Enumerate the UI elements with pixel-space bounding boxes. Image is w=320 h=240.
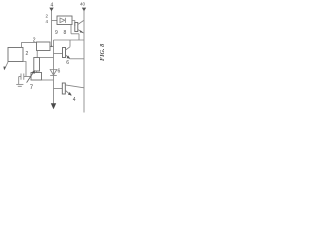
junction dot node A [51, 46, 53, 48]
transistor Q2 collector wire [69, 40, 71, 47]
node A junction wire to diode box [52, 20, 58, 22]
transistor Q1 collector diagonal [78, 21, 84, 25]
terminal T1 arrowhead [49, 8, 53, 12]
wire R1 top to center line [40, 57, 54, 59]
svg-text:2: 2 [26, 51, 29, 57]
wire U1 to Q1 base [72, 21, 75, 27]
diode D2 [50, 70, 57, 76]
box B1 [8, 48, 23, 62]
wire P1 to center line [42, 79, 54, 81]
svg-text:2: 2 [33, 38, 36, 44]
svg-text:2: 2 [46, 14, 49, 19]
terminal T2 arrowhead [82, 8, 86, 12]
svg-text:8: 8 [64, 30, 67, 36]
transistor Q3 base bar [62, 83, 65, 94]
figure caption FIG. 8 [99, 46, 106, 61]
transistor Q1 emitter arrowhead [80, 30, 83, 33]
potentiometer P1 arrow [27, 71, 34, 82]
output arrowhead node C [51, 103, 56, 109]
resistor R1 [34, 58, 40, 72]
wire C1 left lead [19, 76, 21, 78]
terminal T1 input line [51, 11, 53, 47]
svg-text:6: 6 [58, 69, 61, 75]
svg-text:9: 9 [55, 30, 58, 36]
svg-text:6: 6 [66, 60, 69, 66]
svg-text:4: 4 [73, 97, 76, 103]
svg-text:7: 7 [30, 85, 34, 91]
box B2 [37, 42, 51, 51]
wire from box B2 output [50, 46, 54, 48]
diode box U1 [57, 16, 72, 25]
svg-text:40: 40 [80, 2, 86, 7]
ground G1 [16, 83, 23, 85]
leader arrow for B1 [4, 62, 8, 69]
wire jog from U1 down [70, 25, 72, 34]
transistor Q3 emitter diagonal [66, 91, 72, 96]
svg-text:4: 4 [46, 19, 49, 24]
svg-text:4: 4 [51, 3, 54, 9]
potentiometer P1 box [31, 73, 42, 81]
transistor Q2 base bar [63, 48, 66, 58]
wire B1 top to B2 [22, 43, 37, 48]
diode D1 inside U1 [60, 18, 65, 23]
reference numerals [26, 2, 86, 104]
transistor Q2 emitter diagonal [66, 55, 70, 59]
transistor Q3 collector wire [65, 85, 84, 88]
wire node B down center [53, 40, 55, 104]
wire B1 bottom step down [23, 62, 26, 77]
transistor Q1 base bar [75, 23, 78, 32]
wire Q2 base feed [54, 53, 63, 55]
wire jog horizontal [71, 33, 79, 35]
transistor Q2 collector diagonal [66, 47, 71, 50]
bus line V+ [83, 11, 85, 113]
transistor Q2 emitter arrowhead [67, 55, 70, 58]
wire rail node B [54, 39, 85, 41]
wire R1 bottom lead [36, 71, 38, 73]
wire jog down to rail [78, 34, 80, 40]
wire B2 bottom lead [36, 51, 38, 58]
capacitor C1 plates [20, 74, 22, 80]
wire C1 to pot [24, 76, 31, 78]
transistor Q1 emitter diagonal [78, 30, 84, 34]
wire Q2 emitter to bus [70, 58, 84, 60]
wire Q3 base feed [54, 88, 63, 90]
transistor Q3 emitter arrowhead [68, 92, 72, 95]
